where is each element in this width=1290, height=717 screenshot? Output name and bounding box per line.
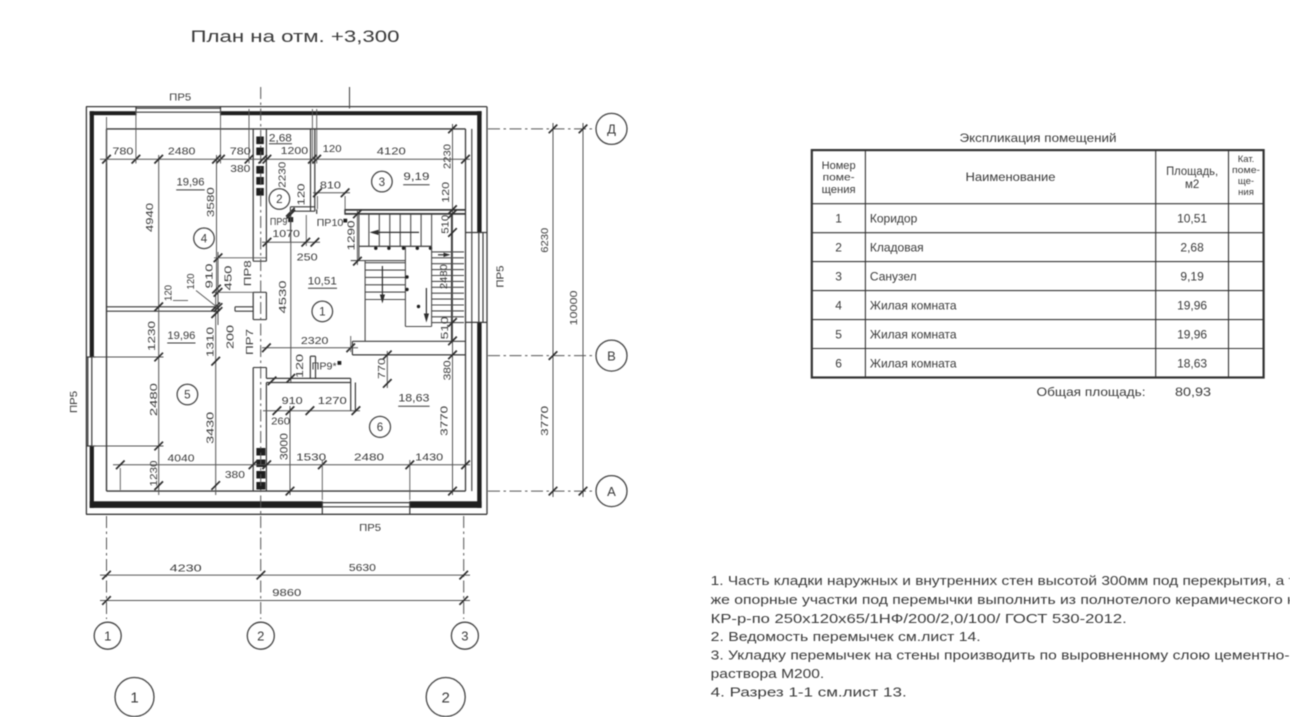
- svg-text:120: 120: [297, 183, 308, 205]
- svg-text:4040: 4040: [168, 454, 195, 465]
- svg-text:3770: 3770: [440, 406, 451, 436]
- svg-text:80,93: 80,93: [1175, 385, 1211, 399]
- svg-text:5630: 5630: [349, 563, 376, 574]
- svg-text:2: 2: [442, 689, 450, 706]
- svg-text:Экспликация помещений: Экспликация помещений: [960, 131, 1117, 145]
- svg-text:1290: 1290: [346, 220, 357, 250]
- svg-text:4120: 4120: [377, 147, 406, 158]
- svg-text:3000: 3000: [278, 433, 290, 460]
- svg-text:ПР7: ПР7: [245, 329, 256, 355]
- svg-text:910: 910: [282, 396, 303, 407]
- svg-text:200: 200: [226, 325, 237, 349]
- svg-text:19,96: 19,96: [1177, 327, 1207, 341]
- svg-text:1. Часть кладки наружных и вну: 1. Часть кладки наружных и внутренних ст…: [711, 574, 1290, 588]
- svg-text:м2: м2: [1185, 179, 1199, 191]
- svg-text:1: 1: [104, 628, 111, 643]
- svg-text:щения: щения: [822, 184, 856, 196]
- svg-text:ще-: ще-: [1238, 176, 1254, 187]
- svg-text:Площадь,: Площадь,: [1166, 166, 1218, 178]
- svg-text:3: 3: [379, 176, 385, 189]
- svg-text:4: 4: [835, 298, 842, 312]
- svg-text:10000: 10000: [569, 290, 580, 325]
- svg-text:18,63: 18,63: [1177, 356, 1207, 370]
- svg-text:380: 380: [230, 164, 250, 175]
- svg-text:КР-р-по 250х120х65/1НФ/200/2,0: КР-р-по 250х120х65/1НФ/200/2,0/100/ ГОСТ…: [711, 612, 1127, 626]
- svg-text:Кат.: Кат.: [1238, 154, 1255, 165]
- svg-text:4: 4: [201, 232, 208, 245]
- svg-text:510: 510: [440, 215, 451, 234]
- svg-text:450: 450: [223, 265, 234, 290]
- svg-text:10,51: 10,51: [1177, 212, 1207, 226]
- svg-text:раствора М200.: раствора М200.: [711, 667, 825, 681]
- svg-text:1530: 1530: [296, 453, 326, 464]
- svg-text:10,51: 10,51: [308, 275, 337, 287]
- svg-text:19,96: 19,96: [167, 330, 195, 342]
- svg-text:3430: 3430: [205, 412, 216, 444]
- svg-text:1310: 1310: [205, 327, 216, 357]
- svg-text:380: 380: [225, 470, 245, 481]
- svg-text:2480: 2480: [168, 146, 196, 157]
- svg-text:6230: 6230: [540, 228, 551, 253]
- svg-text:ПР5: ПР5: [359, 523, 381, 534]
- svg-text:В: В: [607, 348, 616, 363]
- svg-text:9860: 9860: [272, 588, 301, 599]
- svg-text:4940: 4940: [145, 203, 156, 232]
- svg-text:2,68: 2,68: [1180, 241, 1204, 255]
- svg-text:Общая площадь:: Общая площадь:: [1037, 385, 1146, 399]
- svg-text:18,63: 18,63: [398, 392, 429, 404]
- svg-text:ПР8: ПР8: [243, 260, 254, 286]
- svg-text:1: 1: [319, 306, 325, 319]
- svg-text:3: 3: [835, 269, 842, 283]
- svg-text:2: 2: [257, 628, 264, 643]
- svg-text:ПР5: ПР5: [169, 93, 191, 104]
- svg-text:1070: 1070: [272, 229, 300, 240]
- svg-text:3770: 3770: [540, 406, 551, 436]
- svg-text:250: 250: [297, 253, 318, 264]
- svg-text:ПР9: ПР9: [270, 217, 288, 228]
- svg-text:2: 2: [276, 193, 282, 206]
- svg-text:380: 380: [442, 360, 453, 380]
- svg-text:А: А: [607, 484, 616, 499]
- svg-text:910: 910: [204, 263, 215, 288]
- svg-text:2,68: 2,68: [269, 132, 292, 144]
- svg-text:ния: ния: [1238, 187, 1254, 198]
- svg-text:19,96: 19,96: [177, 176, 205, 188]
- svg-text:же опорные участки под перемыч: же опорные участки под перемычки выполни…: [711, 593, 1290, 607]
- svg-text:Д: Д: [607, 122, 616, 137]
- svg-text:2230: 2230: [442, 144, 453, 169]
- svg-text:2480: 2480: [439, 264, 450, 289]
- svg-text:6: 6: [835, 356, 842, 370]
- svg-text:План на отм. +3,300: План на отм. +3,300: [191, 27, 400, 46]
- svg-text:Жилая комната: Жилая комната: [870, 356, 957, 370]
- svg-text:2320: 2320: [301, 336, 329, 347]
- svg-text:260: 260: [271, 417, 290, 428]
- svg-text:4230: 4230: [170, 564, 202, 575]
- svg-text:Санузел: Санузел: [870, 269, 917, 283]
- svg-text:9,19: 9,19: [1180, 269, 1204, 283]
- svg-text:1430: 1430: [415, 453, 443, 464]
- svg-text:3: 3: [461, 628, 468, 643]
- svg-text:120: 120: [441, 182, 452, 203]
- svg-text:3. Укладку перемычек на стены: 3. Укладку перемычек на стены производит…: [711, 648, 1290, 662]
- svg-text:780: 780: [112, 146, 133, 157]
- svg-text:1: 1: [835, 212, 842, 226]
- svg-text:Коридор: Коридор: [870, 212, 918, 226]
- svg-text:2. Ведомость перемычек см.лист: 2. Ведомость перемычек см.лист 14.: [711, 630, 981, 644]
- svg-text:810: 810: [320, 181, 341, 192]
- svg-text:1270: 1270: [318, 396, 347, 407]
- svg-text:3580: 3580: [206, 187, 217, 217]
- svg-text:ПР9*: ПР9*: [312, 362, 337, 373]
- svg-text:Жилая комната: Жилая комната: [870, 327, 957, 341]
- svg-text:780: 780: [230, 146, 251, 157]
- svg-text:6: 6: [377, 421, 383, 434]
- svg-text:5: 5: [184, 389, 190, 402]
- svg-text:Номер: Номер: [822, 160, 856, 172]
- svg-text:4. Разрез 1-1 см.лист 13.: 4. Разрез 1-1 см.лист 13.: [711, 686, 907, 700]
- svg-text:1230: 1230: [149, 460, 160, 486]
- svg-text:1230: 1230: [147, 321, 158, 351]
- svg-text:1: 1: [130, 689, 138, 706]
- svg-text:120: 120: [186, 273, 197, 289]
- svg-text:Наименование: Наименование: [966, 172, 1056, 184]
- svg-text:ПР5: ПР5: [495, 265, 506, 287]
- svg-text:Кладовая: Кладовая: [870, 241, 924, 255]
- svg-text:ПР5: ПР5: [69, 391, 80, 413]
- svg-text:поме-: поме-: [823, 173, 855, 184]
- svg-text:2480: 2480: [149, 383, 160, 416]
- svg-text:2: 2: [835, 241, 842, 255]
- svg-text:120: 120: [323, 144, 342, 155]
- svg-text:поме-: поме-: [1232, 165, 1260, 176]
- svg-text:ПР10: ПР10: [317, 218, 344, 229]
- svg-text:9,19: 9,19: [403, 171, 429, 183]
- svg-text:Жилая комната: Жилая комната: [870, 298, 957, 312]
- svg-text:4530: 4530: [278, 280, 289, 313]
- svg-text:2480: 2480: [354, 453, 384, 464]
- svg-text:120: 120: [295, 354, 306, 378]
- svg-text:5: 5: [835, 327, 842, 341]
- svg-text:2230: 2230: [277, 162, 288, 188]
- svg-text:120: 120: [164, 285, 175, 301]
- svg-text:510: 510: [440, 316, 451, 339]
- svg-text:770: 770: [377, 358, 388, 379]
- svg-text:1200: 1200: [281, 146, 309, 157]
- svg-text:19,96: 19,96: [1177, 298, 1207, 312]
